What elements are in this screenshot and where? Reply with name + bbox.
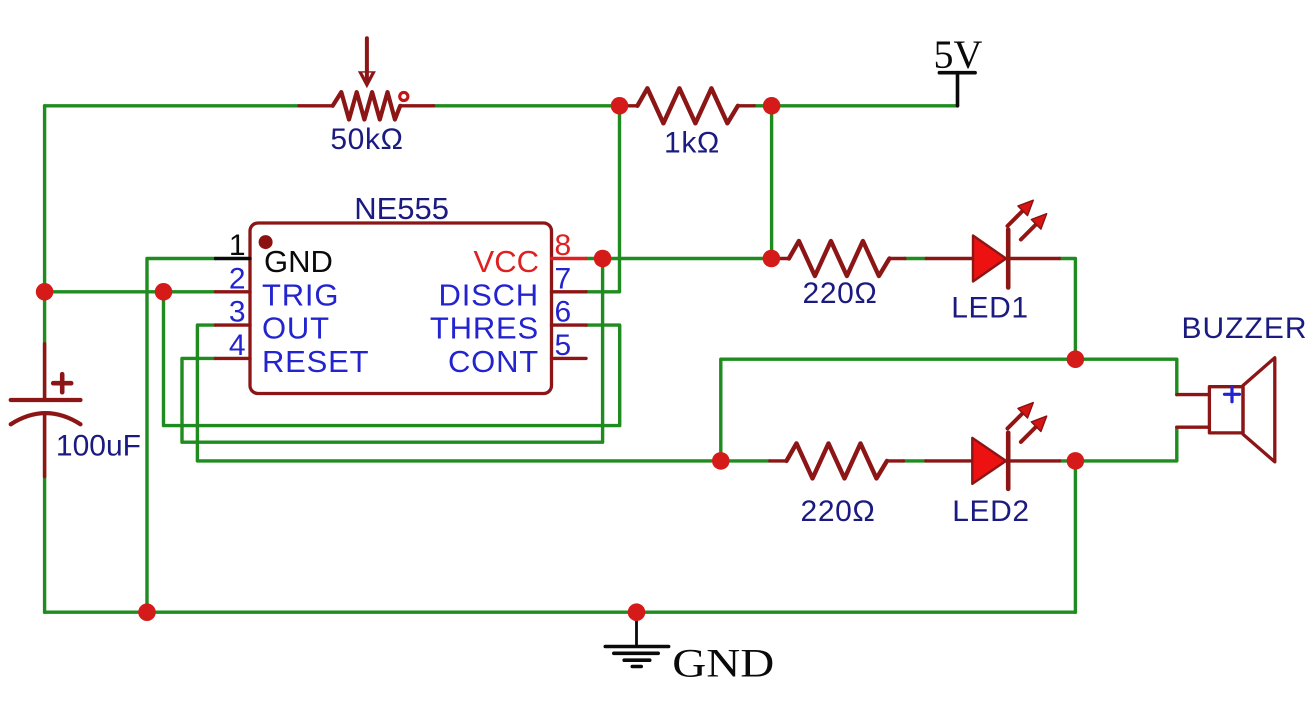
svg-text:BUZZER: BUZZER [1182, 312, 1308, 345]
pin 1 GND stub [216, 257, 251, 260]
svg-text:1: 1 [229, 229, 246, 262]
svg-text:OUT: OUT [262, 311, 330, 346]
wire capacitor bottom to ground rail [43, 477, 46, 613]
pin 8 VCC stub [552, 257, 587, 260]
svg-text:LED2: LED2 [952, 495, 1029, 528]
svg-text:5: 5 [555, 329, 572, 362]
capacitor C1 100uF [11, 344, 81, 477]
ground symbol [605, 612, 668, 666]
svg-text:8: 8 [555, 229, 572, 262]
LED2 emission arrow a [1003, 398, 1038, 433]
wire THRES to TRIG [164, 292, 620, 426]
pin 2 TRIG stub [216, 290, 251, 293]
pin 1 indicator dot [259, 235, 273, 249]
pin 6 THRES stub [552, 323, 587, 326]
svg-text:GND: GND [264, 244, 333, 279]
wire RESET to VCC [182, 259, 603, 443]
svg-text:TRIG: TRIG [262, 277, 339, 312]
resistor R2 220 for LED1 [771, 241, 905, 276]
buzzer LS1 [1177, 358, 1275, 462]
wire GND pin1 to ground rail [147, 259, 216, 613]
junction buzzer plus LED1 cathode [1067, 350, 1085, 368]
svg-text:50kΩ: 50kΩ [330, 123, 403, 156]
LED1 emission arrow b [1016, 209, 1051, 244]
wire bottom ground rail [45, 611, 1076, 614]
svg-text:1kΩ: 1kΩ [664, 127, 720, 160]
wire OUT to LED2 row [197, 325, 769, 461]
svg-text:3: 3 [229, 296, 246, 329]
resistor RV1 50k potentiometer [299, 92, 434, 119]
LED2 diode [926, 433, 1060, 489]
svg-text:5V: 5V [934, 32, 983, 77]
svg-text:4: 4 [229, 329, 246, 362]
wire LED2 cathode to buzzer minus [1060, 427, 1177, 461]
svg-text:CONT: CONT [448, 344, 539, 379]
pin 4 RESET stub [216, 357, 251, 360]
wire LED2 junction down to ground rail [1074, 461, 1077, 612]
LED2 emission arrow b [1016, 411, 1051, 446]
pin 7 DISCH stub [552, 290, 587, 293]
svg-text:220Ω: 220Ω [803, 277, 878, 310]
junction TRIG THRES [155, 283, 173, 301]
LED1 diode [926, 230, 1059, 288]
wire LED2 resistor to anode [903, 459, 926, 462]
svg-text:6: 6 [555, 296, 572, 329]
svg-text:100uF: 100uF [56, 429, 141, 462]
wire 1k right drop [770, 106, 773, 259]
svg-text:GND: GND [672, 640, 774, 685]
junction top rail at 1k right [763, 97, 781, 115]
svg-text:DISCH: DISCH [439, 277, 539, 312]
wire LED1 resistor to anode [905, 257, 926, 260]
svg-text:RESET: RESET [262, 344, 369, 379]
junction OUT LED2 [712, 452, 730, 470]
pin 3 OUT stub [216, 323, 251, 326]
svg-text:LED1: LED1 [951, 292, 1028, 325]
svg-text:THRES: THRES [430, 311, 539, 346]
buzzer plus mark [1225, 387, 1240, 402]
wire top rail right [754, 104, 957, 107]
junction top rail at 1k left [611, 97, 629, 115]
svg-text:7: 7 [555, 262, 572, 295]
svg-text:2: 2 [229, 262, 246, 295]
wire VCC row [586, 257, 772, 260]
junction left rail TRIG [36, 283, 54, 301]
wire top rail middle [434, 104, 620, 107]
junction ground rail pin1 [138, 603, 156, 621]
junction 220 LED1 left [763, 250, 781, 268]
svg-text:NE555: NE555 [354, 191, 449, 226]
potentiometer wiper terminal circle [400, 92, 408, 100]
potentiometer wiper arrow [358, 38, 376, 88]
pin 5 CONT stub [552, 357, 587, 360]
wire buzzer plus net [721, 359, 1177, 461]
power symbol 5V [939, 73, 975, 106]
op-amp U1 NE555 body [250, 223, 552, 394]
resistor R3 220 for LED2 [770, 443, 904, 478]
wire top rail left [45, 104, 299, 107]
LED1 emission arrow a [1003, 195, 1038, 230]
wire TRIG row [45, 290, 216, 293]
svg-text:VCC: VCC [474, 244, 539, 279]
svg-text:220Ω: 220Ω [801, 495, 876, 528]
junction ground rail GND symbol [628, 603, 646, 621]
wire LED1 cathode down [1059, 259, 1075, 360]
junction VCC RESET [594, 250, 612, 268]
wire left rail [43, 106, 46, 344]
wire DISCH to top rail [586, 106, 620, 292]
resistor R1 1k [620, 88, 755, 123]
junction LED2 cathode [1067, 452, 1085, 470]
